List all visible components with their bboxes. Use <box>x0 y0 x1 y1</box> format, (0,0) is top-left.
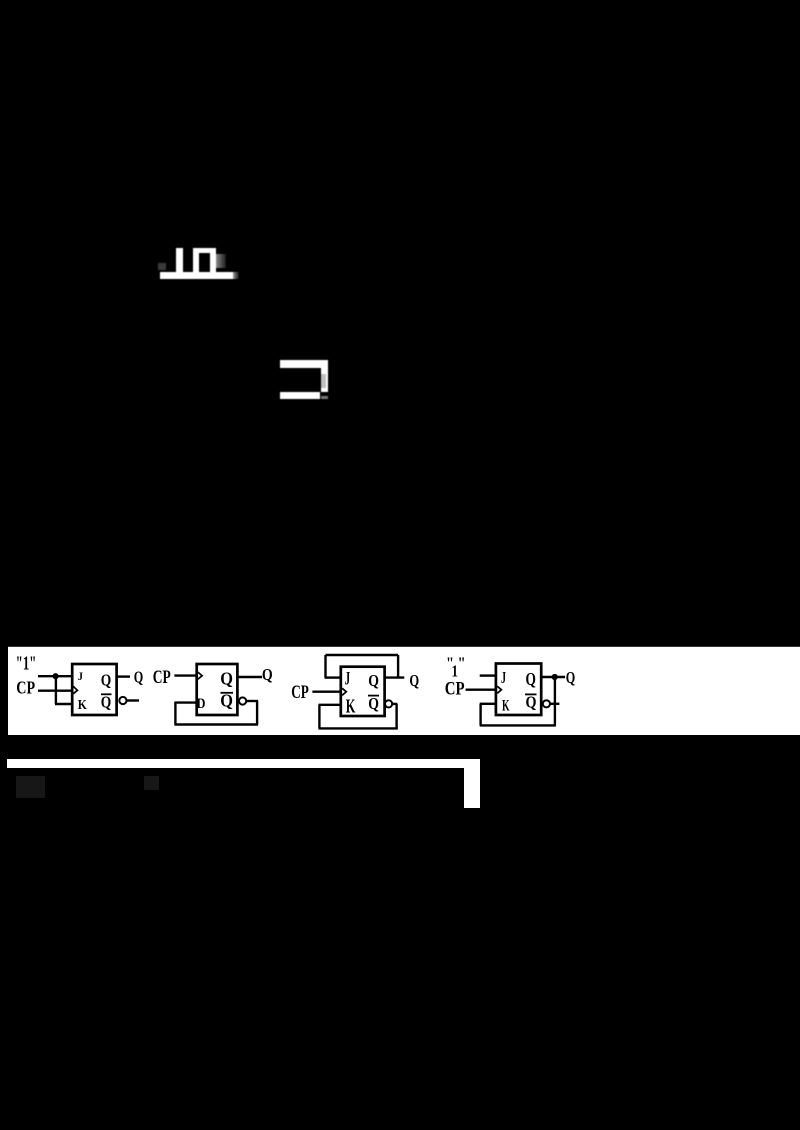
svg-text:Q: Q <box>134 668 144 687</box>
svg-text:CP: CP <box>16 678 35 698</box>
svg-text:Q: Q <box>101 671 112 690</box>
svg-text:Q: Q <box>566 668 576 687</box>
svg-text:Q: Q <box>368 671 379 690</box>
svg-text:CP: CP <box>153 667 171 688</box>
svg-text:Q: Q <box>409 671 419 690</box>
svg-text:Q: Q <box>262 665 273 684</box>
svg-text:K: K <box>502 697 510 714</box>
svg-text:D: D <box>197 696 206 712</box>
svg-text:Q: Q <box>220 691 233 711</box>
svg-text:"1": "1" <box>16 653 37 675</box>
svg-text:Q: Q <box>101 693 112 712</box>
svg-text:1: 1 <box>452 662 459 681</box>
svg-text:Q: Q <box>526 669 536 689</box>
svg-text:K: K <box>346 696 356 718</box>
svg-text:Q: Q <box>368 694 379 713</box>
svg-text:J: J <box>501 668 506 687</box>
svg-text:CP: CP <box>445 679 465 699</box>
svg-text:CP: CP <box>291 682 309 703</box>
svg-text:Q: Q <box>220 669 233 689</box>
svg-text:K: K <box>78 698 87 713</box>
svg-text:Q: Q <box>526 693 537 712</box>
svg-text:J: J <box>345 670 351 690</box>
svg-text:J: J <box>78 669 83 683</box>
